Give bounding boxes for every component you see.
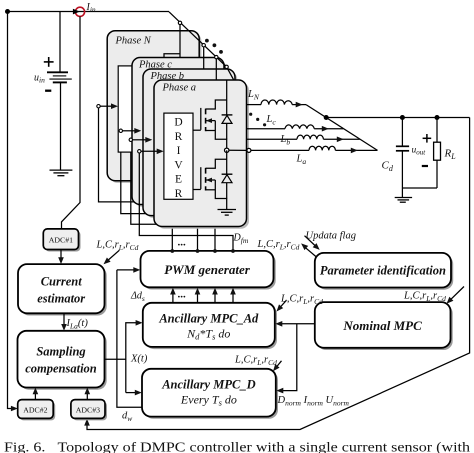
svg-text:Phase N: Phase N [115, 36, 152, 47]
svg-text:...: ... [178, 237, 187, 249]
ancillary MPC_D block [142, 369, 278, 419]
svg-text:Lb: Lb [280, 134, 291, 147]
node PWM line dot 2 [196, 249, 200, 253]
diode D2 body diode low-side [222, 150, 233, 198]
inductor L_b [247, 135, 360, 142]
annotation arrow params to nominal MPC [447, 287, 465, 304]
svg-text:estimator: estimator [37, 292, 85, 306]
annotation arrow updata flag to parameter identification [305, 236, 320, 250]
phase module Phase c box [132, 58, 226, 207]
label plus input drawn [44, 57, 54, 67]
svg-text:ILa(t): ILa(t) [66, 318, 89, 331]
svg-text:compensation: compensation [25, 362, 97, 376]
svg-text:Dnorm Inorm Unorm: Dnorm Inorm Unorm [277, 395, 350, 408]
ADC#3 block [71, 400, 107, 421]
wire top supply diagonal feed [169, 12, 234, 80]
battery uin [47, 72, 72, 82]
resistor RL [434, 118, 441, 189]
annotation arrow params to MPC_D [273, 361, 282, 372]
svg-text:L,C,rL,rCd: L,C,rL,rCd [234, 355, 277, 368]
transistor Q2 low-side MOSFET [193, 159, 227, 209]
wire output rail [326, 117, 469, 119]
phase module Phase N box [107, 31, 201, 183]
driver U-a block [164, 113, 193, 200]
node summing junction [324, 115, 329, 120]
parameter identification block [315, 253, 453, 290]
svg-text:uout: uout [412, 146, 427, 157]
svg-text:Parameter identification: Parameter identification [320, 264, 446, 278]
wire ADC#1 to current estimator [58, 250, 64, 265]
svg-text:Cd: Cd [382, 160, 394, 174]
svg-text:uin: uin [34, 73, 45, 85]
ellipsis dots more phases [205, 39, 223, 54]
node phase a output terminal [247, 148, 251, 152]
battery uin lead top [59, 12, 61, 72]
wire PWM-to-driver phase a routing [139, 151, 233, 251]
sampling compensation block [18, 331, 107, 390]
wire phase N drain rail [164, 54, 180, 58]
svg-text:Δds: Δds [130, 291, 145, 304]
wire sensor signal to ADC#1 [62, 16, 81, 229]
current sensor Iin [73, 7, 85, 16]
svg-text:Dfm: Dfm [233, 233, 249, 246]
svg-text:RL: RL [444, 148, 457, 162]
node input junction [5, 9, 10, 14]
svg-text:Updata flag: Updata flag [306, 231, 356, 242]
node PWM line dot 4 [231, 249, 235, 253]
wire ADC#2 to sampling compensation [33, 388, 39, 400]
wire top rail [7, 11, 169, 13]
wire ADC#3 to sampling compensation [85, 388, 91, 400]
svg-text:Nominal MPC: Nominal MPC [342, 318, 422, 333]
svg-text:Nd*Ts do: Nd*Ts do [186, 326, 230, 341]
wire MPC_Ad to PWM arrows [170, 288, 236, 303]
transistor Q1 high-side MOSFET [193, 100, 227, 150]
svg-text:Lc: Lc [266, 114, 277, 127]
wire uout feedback to ADC#3 [84, 118, 469, 430]
svg-text:LN: LN [247, 89, 260, 102]
svg-text:Sampling: Sampling [36, 345, 85, 359]
annotation arrow params to MPC_Ad [277, 300, 287, 311]
inductor L_a [251, 146, 378, 153]
node PWM line dot 1 [170, 249, 174, 253]
diode D1 body diode high-side [222, 100, 233, 139]
inductor L_N [247, 100, 307, 107]
label minus output drawn [422, 165, 428, 167]
label minus input drawn [45, 90, 51, 92]
wire nominal MPC to MPC_D norm values [276, 324, 297, 394]
svg-text:Iin: Iin [86, 2, 96, 14]
phase module Phase b box [143, 69, 237, 218]
wire tap drop into phase c [203, 45, 205, 69]
node tap 3 [215, 55, 218, 58]
node PWM line dot 3 [213, 249, 217, 253]
svg-text:L,C,rL,rCd: L,C,rL,rCd [403, 291, 446, 304]
svg-text:R: R [175, 188, 183, 200]
phase module Phase a box [154, 80, 249, 229]
svg-text:R: R [175, 131, 183, 143]
svg-text:E: E [175, 174, 182, 186]
svg-text:Fig. 6. Topology of DMPC con: Fig. 6. Topology of DMPC controller with… [4, 440, 470, 453]
nominal MPC block [315, 302, 453, 350]
wire left sense rail to ADC#2 [8, 12, 18, 412]
battery uin lead bottom [60, 82, 62, 169]
wire nominal MPC to MPC_Ad [275, 321, 315, 327]
wire driver input phase N [97, 103, 118, 109]
wire RL to Cd bottom [402, 187, 437, 189]
wire current estimator to sampling compensation ILa [61, 313, 67, 331]
wire driver input phase b [129, 137, 152, 143]
wire state trunk X(t) [126, 320, 143, 395]
annotation arrow params to current estimator [104, 250, 120, 264]
ADC#1 block [43, 229, 80, 252]
svg-text:L,C,rL,rCd: L,C,rL,rCd [257, 239, 300, 252]
ground phase a [218, 210, 237, 216]
ground source [50, 170, 73, 176]
driver U-N inside phase N [118, 66, 147, 152]
node switching node phase a [225, 148, 229, 152]
wire driver input phase a [138, 149, 164, 155]
wire tap drop into phase N [179, 23, 181, 58]
svg-text:Current: Current [41, 275, 83, 289]
svg-text:I: I [177, 145, 181, 157]
wire summing diagonal [306, 105, 378, 151]
inductor L_c [247, 125, 344, 132]
svg-text:La: La [296, 154, 307, 167]
wire supply drop inside phase a [226, 80, 228, 100]
svg-text:dw: dw [122, 411, 132, 424]
svg-text:Ancillary MPC_D: Ancillary MPC_D [161, 377, 255, 391]
capacitor Cd [396, 118, 409, 198]
svg-text:D: D [174, 117, 182, 129]
svg-text:Every Ts do: Every Ts do [180, 392, 237, 407]
PWM generater block [141, 251, 276, 290]
svg-text:...: ... [178, 289, 187, 301]
svg-text:L,C,rL,rCd: L,C,rL,rCd [96, 240, 139, 253]
annotation arrow parameter identification output [301, 243, 316, 256]
ground output [395, 198, 412, 203]
wire driver input phase c [119, 128, 141, 134]
svg-text:PWM generater: PWM generater [164, 262, 251, 277]
node tap 4 [225, 65, 228, 68]
svg-text:L,C,rL,rCd: L,C,rL,rCd [280, 294, 323, 307]
wire PWM-to-driver phase N routing [99, 106, 173, 251]
wire node to box edge [229, 149, 246, 151]
node Cd tap [400, 115, 405, 120]
svg-text:ADC#2: ADC#2 [23, 405, 47, 414]
ADC#2 block [18, 400, 56, 421]
current estimator block [18, 264, 107, 315]
wire PWM-to-driver phase c routing [121, 131, 198, 251]
wire PWM-to-driver phase b routing [131, 140, 215, 251]
node RL tap [435, 115, 440, 120]
wire sampling compensation to PWM generater [105, 267, 143, 407]
ellipsis dots more inductors [249, 113, 266, 127]
wire tap drop into phase b [215, 57, 217, 80]
ancillary MPC_Ad block [143, 303, 277, 349]
svg-text:ADC#1: ADC#1 [49, 236, 73, 245]
svg-text:Ancillary MPC_Ad: Ancillary MPC_Ad [158, 311, 259, 325]
svg-text:V: V [174, 159, 183, 171]
svg-text:X(t): X(t) [130, 354, 148, 365]
node tap 1 [178, 21, 181, 24]
svg-text:Phase a: Phase a [162, 83, 197, 94]
svg-text:ADC#3: ADC#3 [76, 405, 100, 414]
label plus output drawn [423, 134, 432, 143]
node tap 2 [202, 44, 205, 47]
